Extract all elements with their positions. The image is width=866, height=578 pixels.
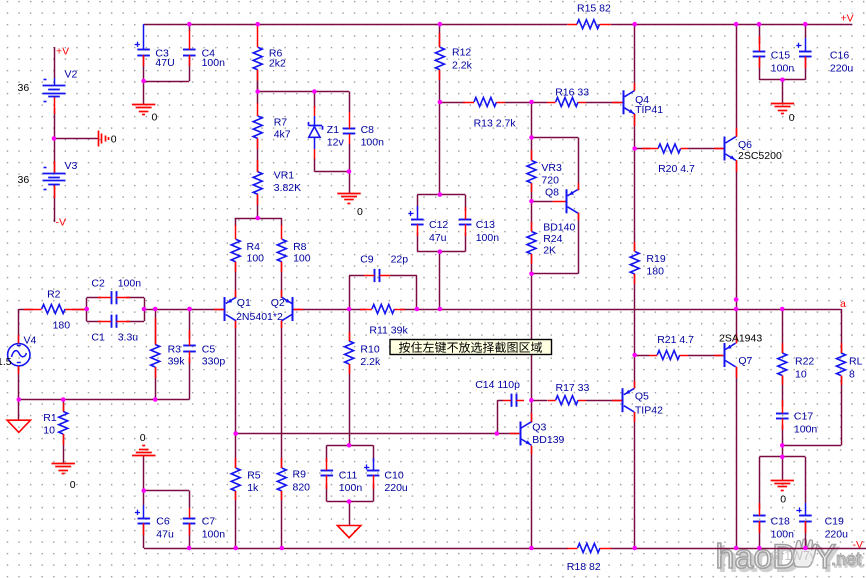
label R5 xyxy=(247,470,261,482)
wire bracket R4-R8 xyxy=(235,218,282,220)
resistor R16 xyxy=(547,98,586,107)
label 8 (RL) xyxy=(849,369,855,381)
svg-text:8: 8 xyxy=(849,369,855,381)
junction R13/R16/VR3 xyxy=(529,100,534,105)
wire R5 top xyxy=(235,434,237,469)
svg-text:2.2k: 2.2k xyxy=(452,60,473,72)
label C5 xyxy=(202,343,216,355)
junction top rail R15/Q4 xyxy=(632,22,637,27)
wire C3 junction to ground xyxy=(143,81,145,105)
wire R12 bottom xyxy=(439,70,441,102)
wire Q2 collector to R9 xyxy=(281,434,283,469)
capacitor C13 xyxy=(459,207,472,236)
svg-text:R15 82: R15 82 xyxy=(577,3,611,15)
label VR1 xyxy=(274,170,295,182)
transistor Q8 xyxy=(553,183,579,220)
label C19 xyxy=(825,516,844,528)
wire C17 junction down xyxy=(782,445,784,457)
svg-text:100: 100 xyxy=(293,253,311,265)
wire C1 bottom edge right xyxy=(126,321,144,323)
transistor Q7 xyxy=(714,335,737,378)
resistor R17 xyxy=(548,396,586,405)
wire VR3 top link xyxy=(531,102,533,138)
wire V3 bottom pin xyxy=(54,185,56,198)
svg-text:2k2: 2k2 xyxy=(269,57,286,69)
label Q5 xyxy=(635,391,649,403)
label 100n (C11) xyxy=(339,482,363,494)
svg-text:C11: C11 xyxy=(339,470,358,482)
svg-text:820: 820 xyxy=(293,482,311,494)
resistor R12 xyxy=(435,33,444,80)
label Q6 xyxy=(738,139,752,151)
transistor Q1 xyxy=(214,290,236,328)
label 47U xyxy=(155,57,174,69)
wire C12C13 top bracket xyxy=(417,194,465,196)
svg-text:100n: 100n xyxy=(202,529,226,541)
svg-text:100n: 100n xyxy=(476,232,500,244)
wire V2 top lead xyxy=(54,47,56,78)
label V2 xyxy=(65,69,78,81)
svg-text:C18: C18 xyxy=(771,516,790,528)
svg-text:Q2: Q2 xyxy=(271,297,285,309)
label C7 xyxy=(202,516,216,528)
junction top rail C16 xyxy=(803,22,808,27)
resistor R2 xyxy=(24,305,87,314)
junction input C2C1 left xyxy=(84,307,89,312)
svg-text:R3: R3 xyxy=(168,343,182,355)
capacitor C19 xyxy=(796,503,811,533)
wire V4 ground stem xyxy=(18,400,20,421)
label C17 xyxy=(794,411,813,423)
junction C9 right xyxy=(415,307,420,312)
resistor VR1 xyxy=(253,160,262,205)
junction Q1 base wire xyxy=(187,307,192,312)
ground 0 (supply midpoint) xyxy=(99,131,109,147)
junction R10/C9 left xyxy=(347,307,352,312)
wire R5 to bottom rail xyxy=(235,491,237,548)
svg-text:220u: 220u xyxy=(830,62,854,74)
wire C2C1 right bracket to R3 xyxy=(144,309,155,311)
wire C5 down xyxy=(189,309,191,339)
wire Q4 collector up xyxy=(634,24,636,90)
svg-text:2SC5200: 2SC5200 xyxy=(738,150,782,162)
label 2k2 xyxy=(269,57,286,69)
resistor R9 xyxy=(277,458,286,500)
svg-text:2K: 2K xyxy=(543,245,556,257)
svg-text:R16 33: R16 33 xyxy=(555,87,589,99)
label 3.82K xyxy=(274,182,301,194)
label 1k xyxy=(247,482,259,494)
label 12v xyxy=(327,137,345,149)
wire Q2 collector down xyxy=(281,321,283,434)
svg-text:C1: C1 xyxy=(91,332,105,344)
svg-text:0: 0 xyxy=(140,432,146,444)
capacitor C5 xyxy=(183,330,196,363)
wire R1 stem xyxy=(63,400,65,412)
resistor VR3 xyxy=(527,150,536,192)
svg-text:R11 39k: R11 39k xyxy=(369,325,408,337)
wire Q1 collector down xyxy=(235,321,237,434)
wire C11 top lead xyxy=(326,445,328,462)
wire C11C10 top bracket xyxy=(327,445,373,447)
transistor Q2 xyxy=(282,290,304,328)
junction output rail Q7 xyxy=(734,307,739,312)
junction VR1 bottom bracket xyxy=(255,216,260,221)
wire C9 right bracket xyxy=(416,276,418,310)
wire C9 top right xyxy=(390,275,417,277)
capacitor C2 xyxy=(98,291,130,304)
svg-text:39k: 39k xyxy=(168,356,186,368)
resistor R8 xyxy=(277,225,286,272)
junction C12C13 bottom xyxy=(438,249,443,254)
label R2 xyxy=(47,289,61,301)
svg-text:R22: R22 xyxy=(795,356,814,368)
label R19 xyxy=(646,253,665,265)
svg-text:.net: .net xyxy=(831,549,861,569)
svg-text:100n: 100n xyxy=(339,482,363,494)
wire R20 to Q6 base xyxy=(688,148,723,150)
label 100n (C18) xyxy=(771,529,795,541)
svg-text:100n: 100n xyxy=(794,424,818,436)
label -V (rail) xyxy=(853,539,864,551)
label R4 xyxy=(247,241,261,253)
zener diode Z1 xyxy=(309,106,323,159)
junction V2/V3 midpoint xyxy=(52,136,57,141)
wire R8 top stub xyxy=(281,218,283,226)
svg-text:R24: R24 xyxy=(543,233,562,245)
capacitor C9 xyxy=(364,269,390,282)
svg-text:180: 180 xyxy=(53,320,71,332)
wire C12 top lead xyxy=(417,195,419,210)
label 0 (supply gnd) xyxy=(111,133,117,145)
wire C2C1 right bracket v xyxy=(144,298,146,322)
svg-text:47u: 47u xyxy=(156,529,174,541)
label 47u (C12) xyxy=(429,232,447,244)
wire VR3 junction to R16 xyxy=(532,102,548,104)
wire junction to ground 0 xyxy=(54,138,99,140)
label C1 xyxy=(91,332,105,344)
wire R12 junction to R13 xyxy=(440,102,465,104)
label 2.2k (R12) xyxy=(452,60,473,72)
wire C15 bottom xyxy=(759,57,761,80)
svg-text:10: 10 xyxy=(43,425,55,437)
junction Q8 base xyxy=(529,199,534,204)
junction input C2C1 right xyxy=(142,307,147,312)
label C12 xyxy=(429,219,448,231)
svg-text:R20 4.7: R20 4.7 xyxy=(658,163,695,175)
resistor R22 xyxy=(778,343,787,385)
wire R17 to Q5 base xyxy=(586,400,622,402)
label 100n (C4) xyxy=(202,57,226,69)
battery V3 xyxy=(43,168,66,190)
label V4 xyxy=(24,335,37,347)
svg-text:720: 720 xyxy=(541,175,559,187)
junction Q3 emitter rail xyxy=(529,546,534,551)
junction top rail C4 xyxy=(187,22,192,27)
wire C19 top lead xyxy=(805,457,807,503)
resistor R7 xyxy=(253,103,262,149)
svg-text:R8: R8 xyxy=(293,241,307,253)
wire R13 to VR3 junction xyxy=(505,102,532,104)
wire +V top rail left segment xyxy=(144,24,568,26)
wire C5 to corner xyxy=(189,358,191,400)
svg-text:R1: R1 xyxy=(43,412,57,424)
wire C3-C4 bottom link xyxy=(143,55,145,81)
label 720 xyxy=(541,175,559,187)
junction top rail R6 xyxy=(255,22,260,27)
label Q8 xyxy=(545,187,559,199)
wire RL bottom xyxy=(841,376,843,446)
resistor R3 xyxy=(151,318,160,378)
wire C19 bottom xyxy=(805,521,807,548)
label 100n (C17) xyxy=(794,424,818,436)
wire C6 bottom xyxy=(143,523,145,548)
capacitor C11 xyxy=(321,458,334,489)
svg-text:2SA1943: 2SA1943 xyxy=(719,333,762,345)
label R24 xyxy=(543,233,562,245)
junction C6C7 top xyxy=(142,488,147,493)
junction bias top xyxy=(529,135,534,140)
wire R3 down xyxy=(155,309,157,345)
wire C10 top lead xyxy=(373,445,375,462)
label 820 xyxy=(293,482,311,494)
wire V3 bottom to -V xyxy=(54,186,56,222)
wire C2 top edge left xyxy=(87,297,101,299)
label 330p xyxy=(202,356,226,368)
wire R3 to C5 junction xyxy=(155,309,189,311)
ac source V4 xyxy=(8,335,30,374)
label Q4 xyxy=(635,94,649,106)
wire Q3 base red xyxy=(509,433,519,435)
wire V4 bottom xyxy=(18,366,20,400)
wire R4 bottom to Q1 emitter xyxy=(235,262,237,298)
wire corner down to C8 xyxy=(349,92,351,113)
label C2 xyxy=(91,278,105,290)
wire C14 junction to R17 xyxy=(531,400,547,402)
wire R22 to C17 xyxy=(782,376,784,408)
label 3.3u xyxy=(118,332,139,344)
label +V (rail) xyxy=(841,12,854,24)
capacitor C15 xyxy=(753,36,766,68)
wire C18C19 bracket xyxy=(759,456,805,458)
label 180 (R19) xyxy=(646,266,664,278)
junction Q4 emitter / R20 xyxy=(632,146,637,151)
svg-text:100: 100 xyxy=(247,253,265,265)
wire C4 top stub xyxy=(189,24,191,31)
svg-text:VR1: VR1 xyxy=(274,170,295,182)
resistor R10 xyxy=(345,332,354,374)
svg-text:C10: C10 xyxy=(384,470,403,482)
junction Q3 collector / C14 xyxy=(529,398,534,403)
label C16 xyxy=(830,49,849,61)
svg-text:BD139: BD139 xyxy=(532,434,564,446)
label R10 xyxy=(360,344,379,356)
label 0 (inverted gnd) xyxy=(140,432,146,444)
svg-text:Q1: Q1 xyxy=(237,297,251,309)
tooltip box (screenshot hint) xyxy=(390,340,552,355)
wire Q6 emitter down xyxy=(736,160,738,309)
wire Z1 bottom corner xyxy=(314,158,316,172)
junction R5 bottom rail xyxy=(233,546,238,551)
label 0 (R1 gnd) xyxy=(70,479,76,491)
wire Q2 base to R10 junction xyxy=(293,309,349,311)
ground (C11/C10) xyxy=(337,526,360,538)
resistor RL xyxy=(837,343,846,385)
ground (C17/C18/C19) xyxy=(771,481,794,491)
junction C18 bottom rail xyxy=(757,546,762,551)
label 100n (C8) xyxy=(361,137,385,149)
capacitor C16 xyxy=(796,38,811,68)
wire Q4 emitter down xyxy=(634,114,636,149)
wire top ground stem xyxy=(782,80,784,104)
wire R21 junction to Q5 emitter xyxy=(634,355,636,388)
wire Q6 collector up xyxy=(736,24,738,137)
junction R6/R7 xyxy=(255,89,260,94)
svg-text:Z1: Z1 xyxy=(327,124,339,136)
wire inverted ground stem xyxy=(143,456,145,491)
capacitor C7 xyxy=(183,508,196,535)
label R21 4.7 xyxy=(657,334,694,346)
label RL xyxy=(849,356,863,368)
label Q1 xyxy=(237,297,251,309)
wire R24 top lead xyxy=(531,201,533,231)
junction C3/C4 ground xyxy=(141,79,146,84)
junction Q1 collector / R5 xyxy=(233,431,238,436)
svg-text:R21 4.7: R21 4.7 xyxy=(657,334,694,346)
wire R2 to C2 bracket xyxy=(72,309,87,311)
wire C13 top lead xyxy=(465,195,467,211)
svg-text:R19: R19 xyxy=(646,253,665,265)
wire bottom -V rail left xyxy=(144,548,568,550)
wire C16 top lead xyxy=(805,24,807,38)
label TIP42 xyxy=(635,405,663,417)
junction C15C16 ground xyxy=(780,78,785,83)
label Q3 xyxy=(532,422,546,434)
junction C19 bottom rail xyxy=(803,546,808,551)
wire R19 bottom xyxy=(634,274,636,355)
wire C11C10 ground stem xyxy=(349,502,351,526)
svg-text:2.2k: 2.2k xyxy=(360,356,381,368)
wire C17 to RL bottom xyxy=(782,445,841,447)
wire Q5 collector down xyxy=(634,412,636,548)
svg-text:C17: C17 xyxy=(794,411,813,423)
label R18 82 xyxy=(567,561,601,573)
wire R10 bottom to C11 bracket xyxy=(349,364,351,445)
wire C5 junction to Q1 base xyxy=(190,309,225,311)
label C10 xyxy=(384,470,403,482)
junction R12/R13 bootstrap xyxy=(438,100,443,105)
wire output corner to RL xyxy=(841,309,843,353)
ground (C15/C16) xyxy=(771,104,794,114)
svg-text:C15: C15 xyxy=(771,49,790,61)
wire R7 to VR1 xyxy=(257,138,259,171)
label Q7 xyxy=(738,355,752,367)
svg-text:R17 33: R17 33 xyxy=(556,382,590,394)
resistor R11 xyxy=(360,305,405,314)
wire Q8 collector down xyxy=(578,213,580,274)
junction C17 bottom xyxy=(780,443,785,448)
ground (V4) xyxy=(7,420,30,432)
label 36 (V2 value) xyxy=(18,82,30,94)
wire V2 to junction xyxy=(54,108,56,138)
label 220u (C19) xyxy=(825,529,849,541)
wire junction to V3 xyxy=(54,139,56,174)
svg-text:C13: C13 xyxy=(476,219,495,231)
label R22 xyxy=(795,356,814,368)
label C9 xyxy=(360,254,374,266)
wire C7 top lead xyxy=(189,491,191,508)
junction bootstrap bottom xyxy=(438,307,443,312)
wire C2 top edge right xyxy=(126,297,144,299)
wire R6 bottom stub xyxy=(257,81,259,92)
label a (output node) xyxy=(840,298,846,310)
junction R21 / Q5 emitter xyxy=(632,353,637,358)
svg-text:V4: V4 xyxy=(24,335,37,347)
label R12 xyxy=(452,47,471,59)
label 1.5 (V4 value) xyxy=(0,356,12,368)
label R16 33 xyxy=(555,87,589,99)
transistor Q4 xyxy=(612,83,635,126)
wire +V top rail right segment xyxy=(611,24,852,26)
transistor Q5 xyxy=(612,381,635,422)
capacitor C12 xyxy=(408,206,423,236)
junction C12C13 top xyxy=(438,192,443,197)
svg-text:C6: C6 xyxy=(156,516,170,528)
wire bias bracket top xyxy=(532,137,579,139)
svg-text:36: 36 xyxy=(18,82,30,94)
label 2SC5200 xyxy=(738,150,782,162)
wire C13 bottom lead xyxy=(465,232,467,251)
resistor R19 xyxy=(630,242,639,284)
label 100n (C15) xyxy=(771,62,795,74)
label -V (supply) xyxy=(56,217,67,229)
svg-text:C2: C2 xyxy=(91,278,105,290)
wire C8 junction to ground xyxy=(349,172,351,194)
wire Z1 to C8 ground junction xyxy=(314,171,349,173)
label 22p xyxy=(391,254,409,266)
wire R12 top xyxy=(439,24,441,47)
label 2N5401*2 xyxy=(236,311,283,323)
svg-text:Q5: Q5 xyxy=(635,391,649,403)
label VR3 xyxy=(541,162,562,174)
wire C1 bottom edge left xyxy=(87,321,101,323)
junction R9 bottom rail xyxy=(280,546,285,551)
wire Z1 top lead xyxy=(314,92,316,109)
junction top rail R12 xyxy=(438,22,443,27)
svg-text:0: 0 xyxy=(111,133,117,145)
label C18 xyxy=(771,516,790,528)
transistor Q6 xyxy=(714,128,737,172)
junction C11C10 bottom xyxy=(347,499,352,504)
label 100 (R4) xyxy=(247,253,265,265)
wire R21 to Q7 base xyxy=(688,355,723,357)
wire R6 bottom to junction xyxy=(257,70,259,92)
label TIP41 xyxy=(635,104,663,116)
wire C8 bottom to junction xyxy=(349,144,351,172)
junction bias bottom xyxy=(529,272,534,277)
svg-text:100n: 100n xyxy=(202,57,226,69)
resistor R13 xyxy=(463,98,505,107)
junction Q6 emitter xyxy=(734,297,739,302)
label 0 (C18 gnd) xyxy=(780,494,786,506)
label R9 xyxy=(293,469,307,481)
resistor R20 xyxy=(642,144,688,153)
junction top rail C15 xyxy=(757,22,762,27)
wire C6 top lead xyxy=(143,491,145,505)
wire C18 top lead xyxy=(759,457,761,509)
svg-text:100n: 100n xyxy=(118,278,142,290)
svg-text:22p: 22p xyxy=(391,254,409,266)
